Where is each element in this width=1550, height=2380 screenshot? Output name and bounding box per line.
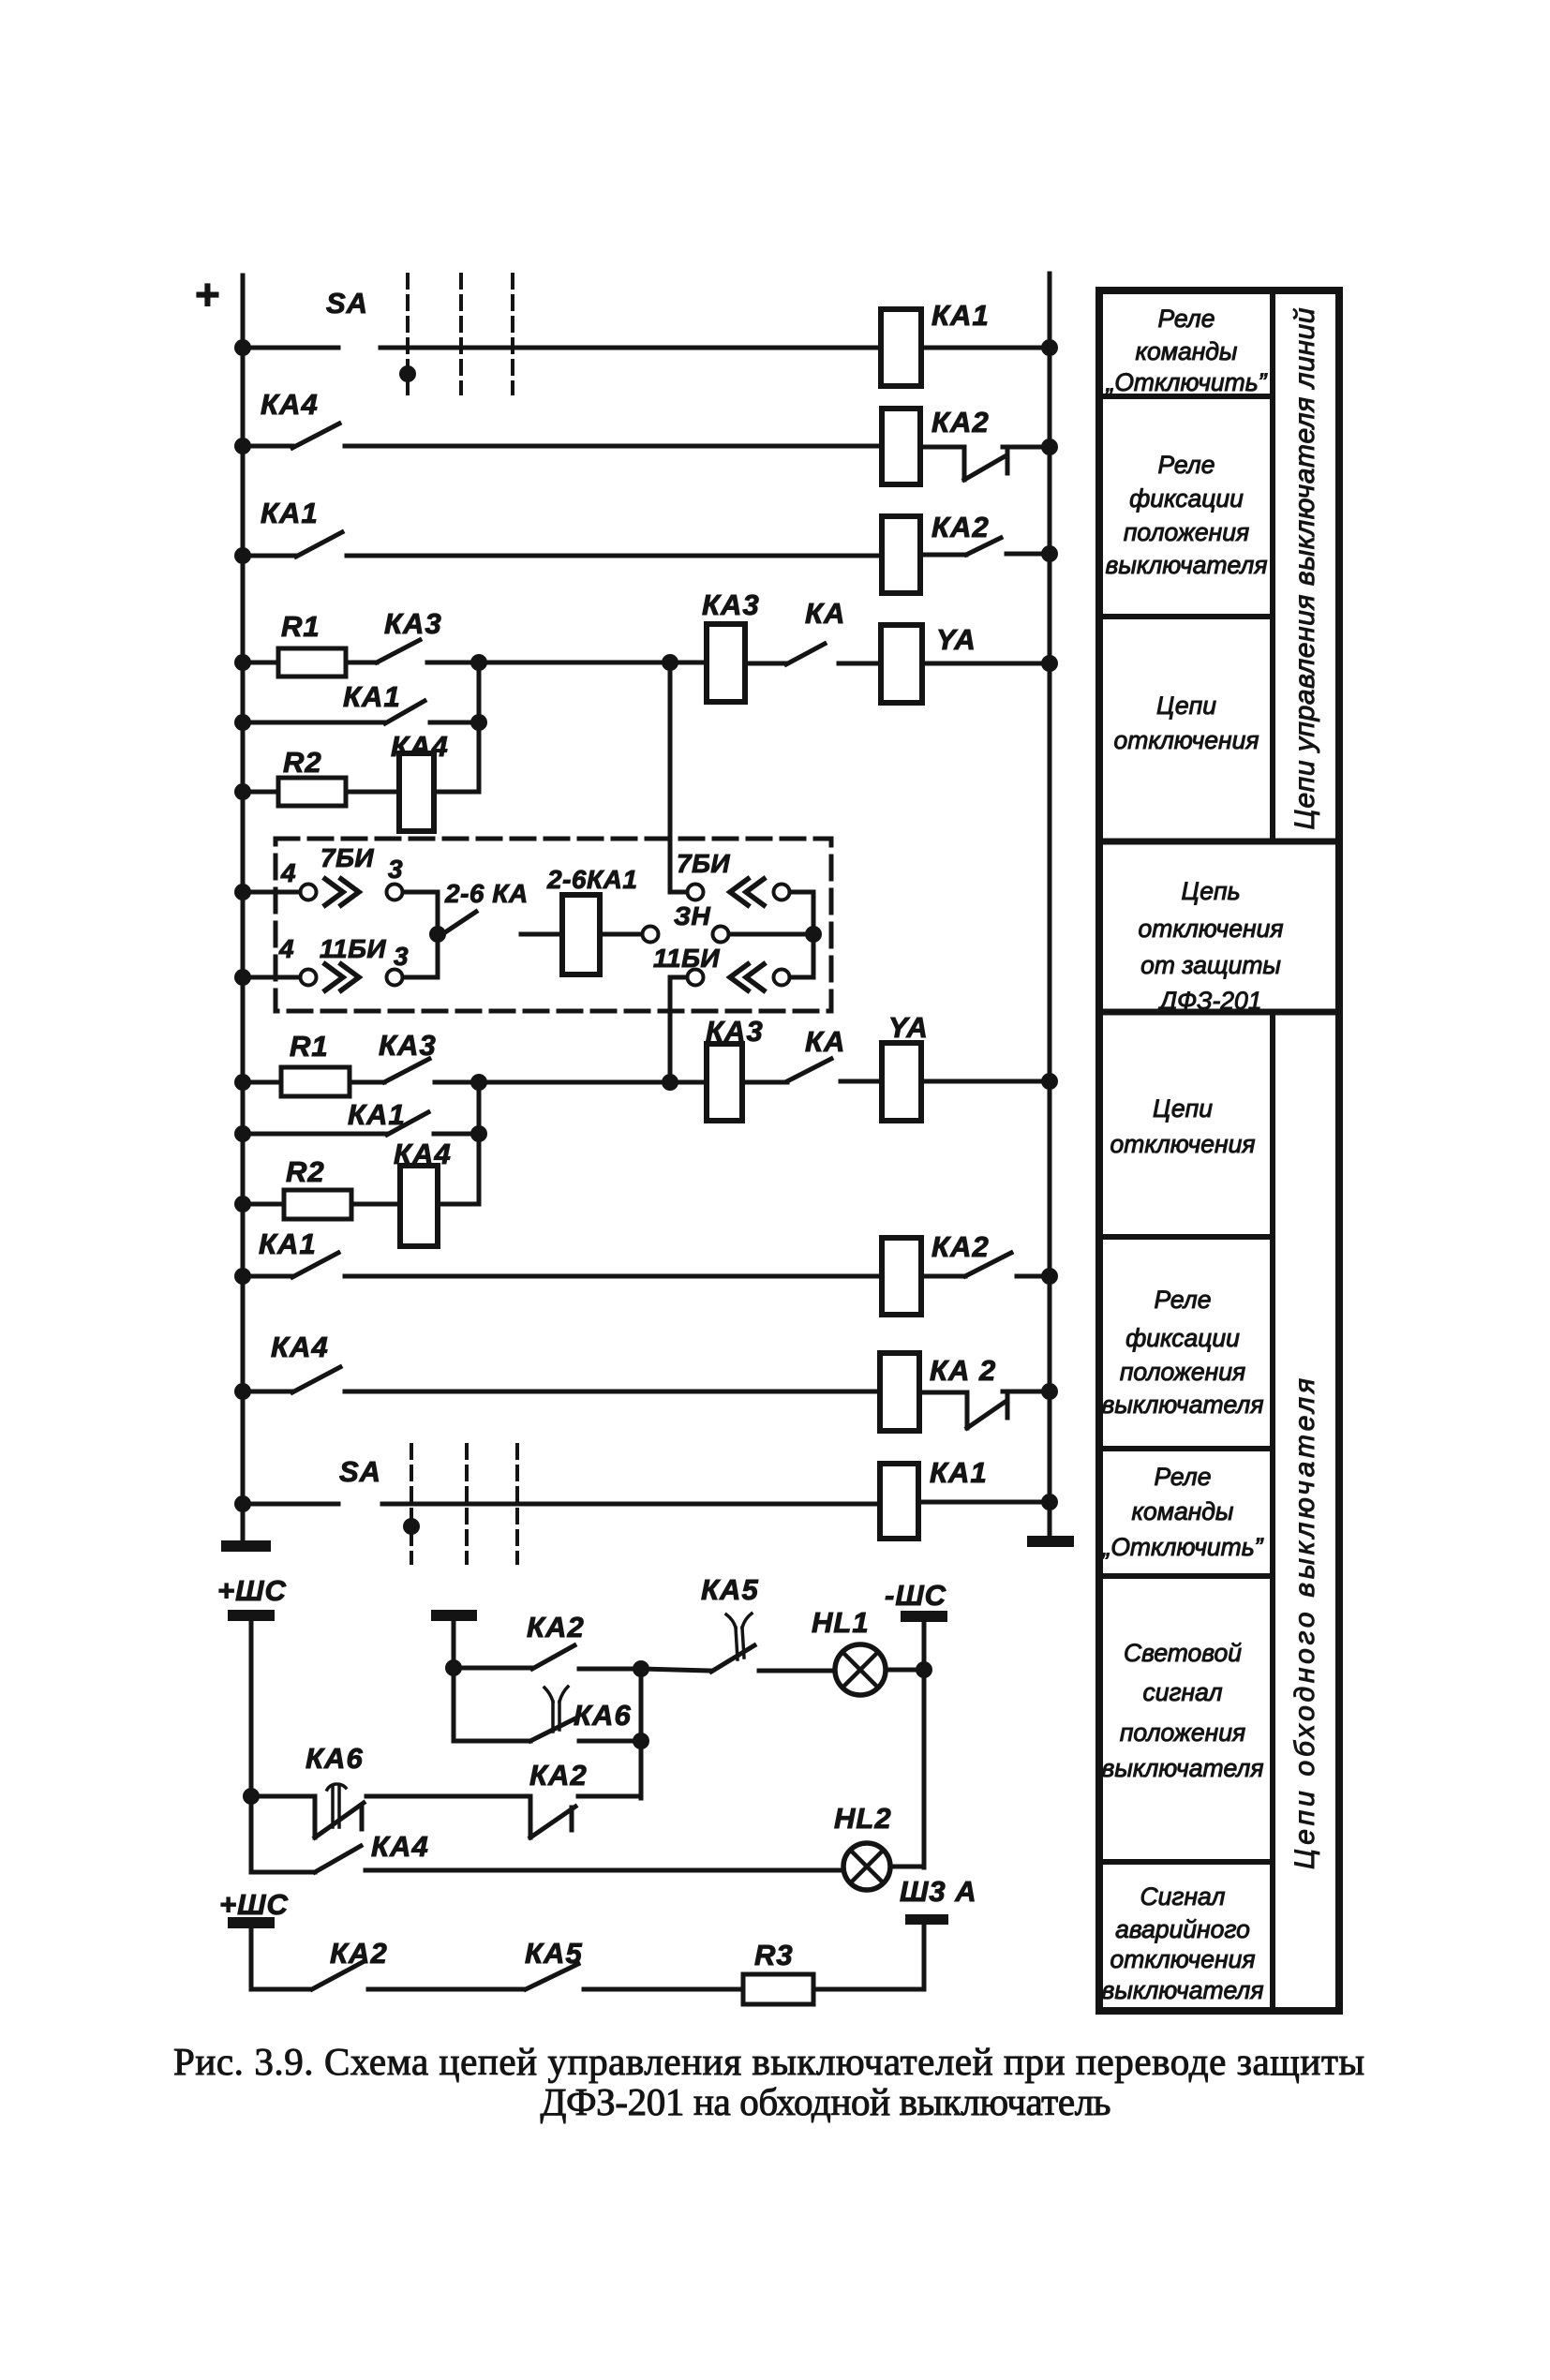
junction rowB x684	[633, 1733, 649, 1749]
svg-text:2-6 КА: 2-6 КА	[444, 879, 529, 908]
left bus wire (+)	[241, 275, 246, 1544]
wire rowC step down	[313, 1796, 318, 1837]
sub bus vertical wire	[452, 1621, 456, 1741]
svg-text:Цепь: Цепь	[1181, 877, 1240, 905]
wire row10 to node	[435, 1080, 479, 1085]
ShZA vertical wire	[922, 1925, 927, 1989]
svg-text:КА 2: КА 2	[930, 1354, 996, 1387]
wire row6 R2 to coil KA4	[346, 790, 399, 795]
svg-text:отключения: отключения	[1114, 726, 1259, 754]
junction sub bus	[445, 1659, 462, 1676]
svg-text:КА4: КА4	[371, 1830, 429, 1863]
relay coil KA2 (second)	[882, 516, 920, 593]
svg-text:команды: команды	[1132, 1497, 1234, 1525]
contact KA2 (with bar, rowC)	[530, 1807, 575, 1837]
wire row12 stub	[243, 1202, 284, 1207]
vertical node wire x511 rows4-6	[477, 662, 482, 792]
vertical wire x715 from row4 into box	[668, 662, 673, 892]
contact KA2 (NO, row13 right)	[965, 1253, 1011, 1276]
junction row14 left	[234, 1383, 251, 1400]
dot on SA lower dash line	[403, 1518, 420, 1535]
wire row4 node to node x715	[479, 661, 670, 665]
contact KA2 with bar (row2 right)	[964, 451, 1007, 480]
svg-text:положения: положения	[1124, 518, 1249, 546]
wire rowE middle	[368, 1987, 524, 1992]
wire row15 coil to right bus	[918, 1500, 1050, 1505]
svg-text:-ШС: -ШС	[885, 1579, 946, 1612]
junction x467	[429, 926, 446, 943]
junction +ShS bus	[243, 1788, 260, 1805]
svg-text:HL1: HL1	[812, 1606, 870, 1639]
relay coil KA3 (lower)	[707, 1044, 742, 1121]
svg-text:Рис. 3.9. Схема цепей управлен: Рис. 3.9. Схема цепей управления выключа…	[173, 2040, 1364, 2083]
contact KA2 (NO, rowE)	[312, 1962, 363, 1989]
contact KA6 (with fork, rowB)	[530, 1718, 575, 1741]
terminal circle ZN left	[643, 927, 659, 943]
wire row3 stub	[243, 554, 296, 558]
wire row15 to coil KA1	[382, 1502, 880, 1507]
svg-text:R1: R1	[281, 610, 320, 643]
wire row1 to coil KA1	[380, 346, 881, 350]
svg-text:2-6КА1: 2-6КА1	[546, 865, 637, 894]
junction rowA x684	[633, 1660, 649, 1677]
wire rowA to contact KA5	[641, 1669, 711, 1671]
junction row12 left	[234, 1196, 251, 1212]
contact KA (NO)	[786, 644, 825, 664]
svg-text:выключателя: выключателя	[1105, 551, 1267, 579]
wire row4 R1 to contact	[346, 661, 377, 665]
junction rowA right	[916, 1661, 932, 1678]
contact KA4 (NO, rowD)	[315, 1846, 361, 1872]
relay coil KA1	[881, 309, 921, 386]
svg-text:3: 3	[394, 942, 409, 971]
wire rowD stub	[251, 1870, 315, 1875]
terminal circle 11BI right b	[774, 970, 790, 986]
svg-text:сигнал: сигнал	[1142, 1678, 1222, 1706]
switch dash line	[406, 275, 410, 394]
wire row5	[243, 721, 385, 725]
terminal circle 7BI right b	[774, 885, 790, 900]
svg-text:положения: положения	[1120, 1358, 1245, 1386]
wire 11BI right to node x868	[790, 934, 813, 977]
junction row11 left	[234, 1125, 251, 1142]
terminal circle 11BI right a	[688, 970, 704, 986]
dashed boundary box of DFZ-201 protection	[276, 839, 831, 1011]
svg-text:КА2: КА2	[931, 1230, 990, 1263]
svg-text:КА1: КА1	[261, 497, 319, 529]
wire row9 to node	[403, 975, 438, 980]
wire row13 coil to contact	[921, 1274, 965, 1279]
contact KA4 (NO, row14)	[292, 1367, 340, 1392]
wire row7 into box	[243, 890, 300, 895]
table horizontal divider y=423	[1099, 394, 1273, 399]
junction node row4 x715	[662, 654, 678, 671]
resistor R2	[278, 778, 346, 806]
svg-text:Реле: Реле	[1158, 451, 1215, 479]
junction row1 left	[234, 339, 251, 356]
svg-text:Цепи: Цепи	[1153, 1094, 1213, 1123]
terminal circle 7BI pin4	[301, 885, 317, 900]
wire row4 to coil YA	[839, 662, 881, 666]
svg-text:КА1: КА1	[259, 1227, 317, 1260]
contact KA2 (NO, row3 right)	[966, 538, 1001, 555]
svg-text:7БИ: 7БИ	[320, 843, 374, 872]
junction node row4 x511	[470, 654, 487, 671]
junction row10 x715	[662, 1074, 678, 1091]
socket arrows 11BI right	[730, 964, 764, 990]
wire row2 stub	[243, 444, 292, 449]
table inner vertical divider (lower)	[1270, 1012, 1275, 2011]
vertical node wire x511 rows10-12	[477, 1082, 482, 1204]
table cell: Реле фиксации положения выключателя (2)	[1101, 1286, 1263, 1419]
svg-text:КА3: КА3	[702, 588, 760, 621]
contact KA5 (manual, with fork)	[711, 1645, 754, 1672]
wire row6 coil to node	[434, 790, 479, 795]
svg-text:команды: команды	[1136, 337, 1238, 365]
svg-text:Ш3 А: Ш3 А	[900, 1875, 977, 1908]
wire row13 to right bus	[1017, 1274, 1050, 1279]
wire rowB to node	[579, 1739, 641, 1744]
table horizontal divider y=1320	[1099, 1234, 1273, 1240]
wire rowA to node	[579, 1667, 641, 1672]
wire 11BI to lower KA3 row	[670, 977, 687, 1081]
svg-text:КА: КА	[805, 1025, 845, 1058]
dot on SA dash line	[399, 365, 416, 382]
svg-text:„Отключить”: „Отключить”	[1102, 1533, 1264, 1561]
wire rowA lamp to -ShS	[886, 1668, 924, 1673]
junction row15 right	[1041, 1494, 1058, 1510]
wire row14 stub	[243, 1390, 292, 1394]
contact KA2 with bar (row14 right)	[967, 1395, 1007, 1428]
svg-text:фиксации: фиксации	[1125, 1324, 1240, 1352]
wire row10 to coil YA	[841, 1079, 882, 1084]
wire row1 left segment	[243, 346, 338, 350]
svg-text:КА2: КА2	[931, 511, 990, 543]
svg-text:R1: R1	[290, 1030, 329, 1063]
contact KA3 (NO)	[377, 640, 420, 662]
table cell: Сигнал аварийного отключения выключателя	[1101, 1882, 1263, 2004]
junction row3 left	[234, 547, 251, 564]
lamp HL1	[835, 1644, 886, 1695]
svg-text:4: 4	[280, 858, 296, 887]
contact KA3 (NO, lower)	[384, 1059, 429, 1082]
svg-text:КА4: КА4	[261, 388, 319, 421]
table cell: Цепи отключения (2)	[1110, 1094, 1256, 1158]
svg-text:КА1: КА1	[348, 1098, 406, 1131]
contact KA1 (NO, row5)	[385, 701, 425, 723]
contact KA1 (NO)	[296, 532, 342, 557]
svg-text:КА2: КА2	[527, 1611, 585, 1644]
resistor R2 (lower)	[284, 1190, 351, 1219]
svg-text:отключения: отключения	[1110, 1945, 1256, 1973]
plug arrows 11BI	[325, 964, 359, 990]
junction row5 x511	[470, 714, 487, 731]
wire row10 R1 to contact	[350, 1080, 384, 1085]
junction row14 right	[1041, 1383, 1058, 1400]
table horizontal divider y=1546	[1099, 1446, 1273, 1451]
svg-text:R2: R2	[283, 746, 322, 779]
wire row13 to coil KA2	[345, 1274, 882, 1279]
wire row3 to coil KA2	[347, 554, 882, 558]
svg-text:4: 4	[278, 934, 294, 963]
svg-text:+ШС: +ШС	[219, 1888, 289, 1921]
svg-text:КА6: КА6	[306, 1742, 364, 1775]
svg-text:R2: R2	[286, 1155, 325, 1188]
contact KA6 (breaker aux, rowC)	[315, 1803, 364, 1837]
relay coil KA3	[707, 624, 745, 702]
svg-text:КА4: КА4	[271, 1331, 329, 1363]
wire row3 coil to contact	[920, 553, 966, 558]
plug arrows 7BI	[325, 879, 359, 905]
svg-text:SA: SA	[326, 287, 368, 320]
svg-text:Цепи обходного выключателя: Цепи обходного выключателя	[1289, 1378, 1320, 1869]
svg-text:ДФЗ-201 на обходной выключател: ДФЗ-201 на обходной выключатель	[541, 2080, 1111, 2123]
svg-text:+: +	[195, 270, 221, 319]
table cell: Цепь отключения от защиты ДФЗ-201	[1139, 877, 1284, 1015]
wire row11	[243, 1132, 387, 1137]
+ShS vertical bus wire	[249, 1621, 254, 1872]
terminal circle 7BI right a	[688, 885, 704, 900]
junction row9 left	[234, 969, 251, 986]
relay coil KA1 (lower)	[880, 1464, 918, 1539]
wire row7 to node	[403, 890, 438, 895]
svg-text:Сигнал: Сигнал	[1140, 1882, 1226, 1911]
svg-text:КА: КА	[805, 597, 845, 630]
wire row12 coil to node	[438, 1202, 479, 1207]
svg-text:ДФЗ-201: ДФЗ-201	[1156, 987, 1261, 1015]
junction row13 left	[234, 1268, 251, 1285]
svg-text:Реле: Реле	[1155, 1463, 1212, 1491]
vertical node wire x467	[436, 892, 440, 977]
switch dash line	[465, 1445, 469, 1563]
svg-text:Реле: Реле	[1155, 1286, 1212, 1314]
socket arrows 7BI right	[730, 879, 764, 905]
+ShS terminal bar	[228, 1610, 275, 1621]
svg-text:выключателя: выключателя	[1101, 1976, 1263, 2004]
wire row9 into box	[243, 975, 300, 980]
svg-text:Цепи: Цепи	[1156, 692, 1216, 720]
contact KA1 (NO, row11)	[387, 1112, 428, 1135]
junction row7 left	[234, 884, 251, 900]
svg-text:HL2: HL2	[834, 1802, 892, 1835]
junction row2 left	[234, 438, 251, 454]
wire row10 stub	[243, 1080, 281, 1085]
wire row4 to coil KA3	[670, 661, 707, 665]
svg-text:7БИ: 7БИ	[677, 849, 730, 878]
wire rowD lamp to -ShS wire	[890, 1865, 924, 1869]
relay coil KA4 (lower)	[400, 1166, 438, 1246]
svg-text:11БИ: 11БИ	[653, 944, 720, 973]
wire row2 coil to contact step	[920, 447, 964, 480]
svg-text:R3: R3	[754, 1939, 794, 1971]
terminal circle 7BI pin3	[387, 885, 403, 900]
junction row4 right	[1041, 655, 1058, 672]
wire rowC middle	[366, 1794, 530, 1799]
contact KA4 (NO)	[292, 424, 339, 448]
-ShS vertical wire down to HL2 row	[922, 1622, 927, 1867]
table horizontal divider y=658	[1099, 614, 1273, 619]
wire row4 stub	[243, 661, 278, 665]
table: annotation column frame	[1099, 290, 1339, 2011]
svg-text:Реле: Реле	[1158, 305, 1215, 333]
switch dash line	[410, 1445, 413, 1563]
table horizontal divider y=898	[1099, 839, 1339, 845]
resistor R1	[278, 648, 346, 677]
wire rowC stub	[251, 1794, 315, 1799]
table cell: Световой сигнал положения выключателя	[1101, 1639, 1263, 1782]
junction row10 right	[1041, 1073, 1058, 1090]
wire row13 stub	[243, 1274, 292, 1279]
wire row3 to right bus	[1006, 552, 1050, 557]
contact KA5 (NO, rowE)	[526, 1964, 578, 1989]
resistor R1 (lower)	[281, 1067, 350, 1096]
wire row5 to node	[430, 721, 479, 725]
svg-text:отключения: отключения	[1139, 915, 1284, 943]
svg-text:SA: SA	[339, 1455, 381, 1488]
svg-text:отключения: отключения	[1110, 1130, 1256, 1158]
wire row2 to coil KA2	[345, 444, 882, 449]
junction row1 right	[1041, 339, 1058, 356]
relay coil 2-6KA1	[562, 895, 600, 974]
+ShS lower terminal bar	[228, 1917, 275, 1928]
svg-text:Цепи управления выключателя: Цепи управления выключателя линий	[1289, 307, 1320, 829]
junction row11 x511	[470, 1125, 487, 1142]
wire to 7BI right terminal	[670, 890, 687, 895]
wire row14 to right bus	[1003, 1390, 1050, 1394]
relay coil KA2 (lower)	[882, 1238, 921, 1315]
junction x868	[805, 926, 822, 943]
terminal circle ZN right	[713, 927, 729, 943]
relay coil KA2	[882, 409, 920, 484]
svg-text:КА3: КА3	[379, 1029, 437, 1062]
wire rowC to node	[578, 1794, 641, 1799]
svg-text:КА1: КА1	[930, 1456, 988, 1489]
left bus bottom terminal bar	[221, 1540, 271, 1552]
svg-text:КА3: КА3	[384, 607, 442, 640]
svg-text:YA: YA	[888, 1011, 929, 1044]
svg-text:+ШС: +ШС	[217, 1574, 287, 1607]
wire row8 to coil 2-6KA1	[521, 932, 562, 937]
svg-text:выключателя: выключателя	[1101, 1391, 1263, 1419]
svg-text:Световой: Световой	[1124, 1639, 1242, 1667]
resistor R3	[743, 1974, 813, 2004]
vertical node wire x684	[639, 1669, 644, 1798]
svg-text:3: 3	[388, 855, 403, 884]
wire rowB	[454, 1739, 530, 1744]
wire row14 to coil KA2	[345, 1390, 880, 1394]
electromagnet coil YA	[881, 625, 922, 703]
junction row4 left	[234, 654, 251, 671]
junction row15 left	[234, 1495, 251, 1512]
wire rowE from +ShS	[251, 1928, 310, 1989]
right bus wire (-)	[1048, 274, 1052, 1539]
svg-text:аварийного: аварийного	[1115, 1915, 1250, 1943]
wire row8 to node x868	[729, 932, 813, 937]
switch dash line	[511, 275, 514, 394]
wire rowA to lamp HL1	[759, 1669, 836, 1673]
wire rowE to R3	[584, 1987, 743, 1992]
junction row10 x511	[470, 1074, 487, 1091]
svg-text:от защиты: от защиты	[1140, 951, 1281, 979]
table cell: Реле команды „Отключить”	[1106, 305, 1268, 396]
wire row1 coil to right bus	[921, 346, 1050, 350]
svg-text:выключателя: выключателя	[1101, 1754, 1263, 1782]
contact KA1 (NO, row13)	[292, 1253, 338, 1277]
wire rowE R3 to ShZA	[813, 1987, 924, 1992]
wire row2 to right bus	[1003, 445, 1050, 450]
contact KA (NO, lower)	[787, 1059, 831, 1081]
right bus bottom terminal bar	[1027, 1536, 1074, 1547]
svg-text:положения: положения	[1120, 1718, 1245, 1747]
contact 2-6KA (NO)	[442, 912, 476, 934]
svg-text:КА2: КА2	[529, 1759, 588, 1792]
svg-text:КА1: КА1	[931, 299, 990, 332]
electromagnet coil YA (lower)	[882, 1043, 921, 1121]
wire row8 coil to terminal	[600, 932, 643, 937]
svg-text:КА2: КА2	[931, 406, 990, 439]
svg-text:YA: YA	[936, 623, 976, 656]
middle sub terminal bar	[431, 1610, 477, 1621]
table cell: Реле команды Отключить (2)	[1102, 1463, 1264, 1561]
wire row4 coil KA3 to contact KA	[745, 662, 786, 666]
table cell: Цепи отключения	[1114, 692, 1259, 754]
terminal circle 11BI pin4	[301, 970, 317, 986]
wire row15 left segment	[243, 1502, 338, 1507]
wire row11 to node	[434, 1132, 479, 1137]
svg-text:11БИ: 11БИ	[320, 934, 386, 963]
svg-text:ЗН: ЗН	[674, 901, 710, 930]
wire row10 node to x715	[479, 1080, 670, 1085]
wire rowC step down 2	[529, 1796, 533, 1837]
wire row12 to coil KA4	[351, 1202, 400, 1207]
lamp HL2	[843, 1843, 890, 1890]
terminal circle 11BI pin3	[387, 970, 403, 986]
junction row2 right	[1041, 439, 1058, 455]
wire row10 coil to contact KA	[742, 1080, 787, 1085]
relay coil KA2 (row14)	[880, 1353, 919, 1431]
wire row14 coil to contact step	[919, 1392, 967, 1428]
svg-text:КА1: КА1	[343, 680, 401, 713]
wire row6 stub	[243, 790, 278, 795]
table cell: Реле фиксации положения выключателя	[1105, 451, 1267, 579]
junction row6 left	[234, 783, 251, 800]
wire row4 to node	[427, 661, 479, 665]
switch dash line	[515, 1445, 519, 1563]
junction row3 right	[1041, 545, 1058, 562]
svg-text:фиксации: фиксации	[1129, 484, 1244, 513]
relay coil KA4	[399, 753, 434, 831]
-ShS terminal bar	[901, 1611, 947, 1622]
table inner vertical divider (upper)	[1270, 290, 1275, 841]
table horizontal divider y=1682	[1099, 1573, 1273, 1579]
wire row10 to coil KA3	[670, 1080, 707, 1085]
contact KA2 (NO, rowA)	[532, 1645, 574, 1669]
table horizontal divider y=1080	[1099, 1009, 1339, 1016]
svg-text:КА5: КА5	[701, 1573, 759, 1606]
table horizontal divider y=1987	[1099, 1859, 1273, 1865]
switch dash line	[459, 275, 463, 394]
wire row10 to right bus	[921, 1079, 1050, 1084]
wire 7BI right to node x868	[790, 892, 813, 934]
wire rowA stub	[454, 1666, 532, 1671]
ShZA terminal bar	[905, 1914, 948, 1925]
junction row13 right	[1041, 1268, 1058, 1285]
junction row10 left	[234, 1074, 251, 1091]
wire rowD to lamp HL2	[365, 1868, 843, 1873]
svg-text:КА6: КА6	[574, 1699, 632, 1732]
svg-text:„Отключить”: „Отключить”	[1106, 368, 1268, 396]
wire row4 coil YA to right bus	[922, 662, 1050, 666]
